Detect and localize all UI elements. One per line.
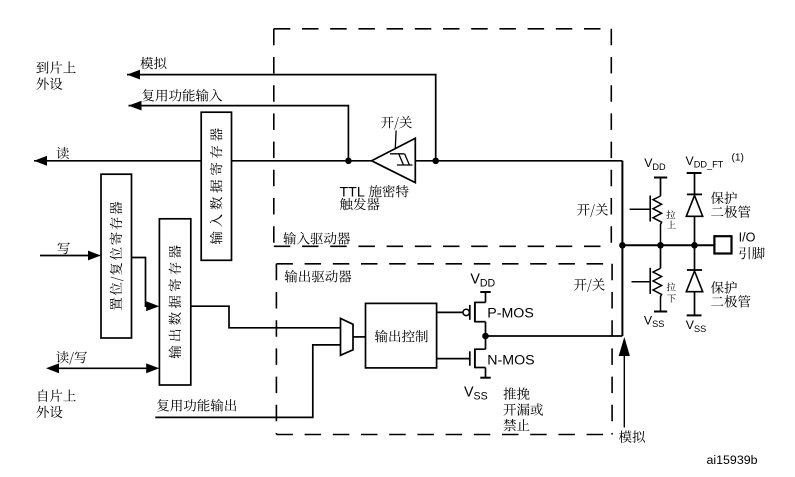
transistor Q2 N-MOS xyxy=(437,336,491,378)
svg-text:I/O: I/O xyxy=(739,231,756,245)
svg-text:N-MOS: N-MOS xyxy=(487,352,534,368)
wire: I/O horizontal line xyxy=(622,244,714,246)
register: input data register 输入数据寄存器 xyxy=(201,112,231,260)
label: 写 xyxy=(58,242,70,254)
label: 拉上 xyxy=(667,210,676,219)
label: 保护二极管 bottom xyxy=(711,281,724,293)
dashed box: output driver 输出驱动器 xyxy=(276,264,612,435)
node: junction at diode column xyxy=(691,242,698,249)
node: P/N common drain junction xyxy=(482,333,489,340)
wire: set/reset to output data register xyxy=(132,258,148,307)
node: junction at pull-up column xyxy=(657,242,664,249)
wire: analog path down to label xyxy=(623,356,625,428)
diode D1: protection diode to VDD_FT xyxy=(686,173,702,245)
label: 模拟 (bottom) xyxy=(619,431,632,443)
diode D2: protection diode to VSS xyxy=(686,245,702,315)
arrow: into output data register xyxy=(146,301,159,311)
wire: mux to output control xyxy=(353,336,366,338)
arrow: AF input (left) xyxy=(129,101,142,111)
label: 开/关 pull-up switch xyxy=(577,204,590,216)
svg-text:P-MOS: P-MOS xyxy=(487,306,534,322)
label: 复用功能输入 xyxy=(142,89,154,101)
label: 复用功能输出 xyxy=(157,399,169,411)
arrow: read/write right xyxy=(146,363,159,373)
label: 输入驱动器 xyxy=(283,232,296,245)
arrow: analog path up xyxy=(619,337,630,356)
label: 到片上外设 xyxy=(36,62,48,74)
register: output data register 输出数据寄存器 xyxy=(159,219,190,385)
label: 模拟 (top) xyxy=(140,57,153,69)
mux: output selector xyxy=(341,318,354,355)
svg-text:SS: SS xyxy=(694,324,706,334)
wire: analog-to-ADC top line xyxy=(127,75,436,161)
wire: pull-down gate line xyxy=(632,281,650,283)
svg-text:DD: DD xyxy=(480,277,496,289)
wire: read/write access double arrow xyxy=(59,367,147,369)
svg-text:TTL: TTL xyxy=(340,185,365,201)
svg-text:ai15939b: ai15939b xyxy=(707,453,758,467)
wire: pull-up gate line xyxy=(630,208,650,210)
wire: alternate function output to mux xyxy=(155,345,340,418)
svg-text:V: V xyxy=(464,384,474,400)
svg-text:DD_FT: DD_FT xyxy=(694,160,724,170)
svg-text:V: V xyxy=(470,271,480,287)
wire: write strobe xyxy=(40,255,88,257)
block: output control 输出控制 xyxy=(366,303,437,368)
node: junction dot AF input tap xyxy=(345,158,352,165)
wire: alternate function input line xyxy=(129,106,349,161)
register: bit set/reset register 置位/复位寄存器 xyxy=(101,174,132,338)
label: 推挽/开漏或/禁止 xyxy=(503,387,516,399)
label: 输出驱动器 xyxy=(285,270,298,283)
svg-text:SS: SS xyxy=(474,390,488,402)
wire: on/off leader to Schmitt xyxy=(394,131,397,149)
wire: main I/O vertical xyxy=(621,161,623,336)
label: 读 xyxy=(56,147,68,159)
wire: read line to Schmitt output xyxy=(34,160,622,162)
transistor Q1 P-MOS xyxy=(470,292,491,336)
wire: driver output to I/O column xyxy=(486,335,623,337)
pin: I/O pad square xyxy=(714,236,731,253)
svg-text:SS: SS xyxy=(652,319,664,329)
label: 读/写 xyxy=(56,351,68,363)
wire: output data register to mux xyxy=(191,306,341,328)
label: 开/关 at Schmitt xyxy=(381,116,394,128)
label: 自片上外设 xyxy=(39,389,48,401)
label: 保护二极管 top xyxy=(711,192,724,204)
resistor: pull-up 拉上 xyxy=(650,178,667,246)
icon: hysteresis symbol xyxy=(390,154,413,165)
arrow: read/write left xyxy=(46,363,59,373)
gate U1: TTL Schmitt trigger xyxy=(372,138,416,182)
arrow: read (left) xyxy=(34,156,47,166)
wire: gate drive to P-MOS (with bubble) xyxy=(437,311,463,313)
label: 开/关 pull-down switch xyxy=(574,279,587,291)
dashed box: input driver 输入驱动器 xyxy=(274,29,612,247)
resistor: pull-down 拉下 xyxy=(650,245,667,311)
label: 拉下 xyxy=(667,283,676,292)
node: junction dot analog tap xyxy=(432,158,439,165)
arrow: write into set/reset register xyxy=(88,251,101,261)
svg-text:DD: DD xyxy=(652,162,666,172)
node: junction at main vertical xyxy=(619,242,626,249)
arrow: analog (left) xyxy=(127,70,140,80)
svg-text:(1): (1) xyxy=(732,152,744,163)
